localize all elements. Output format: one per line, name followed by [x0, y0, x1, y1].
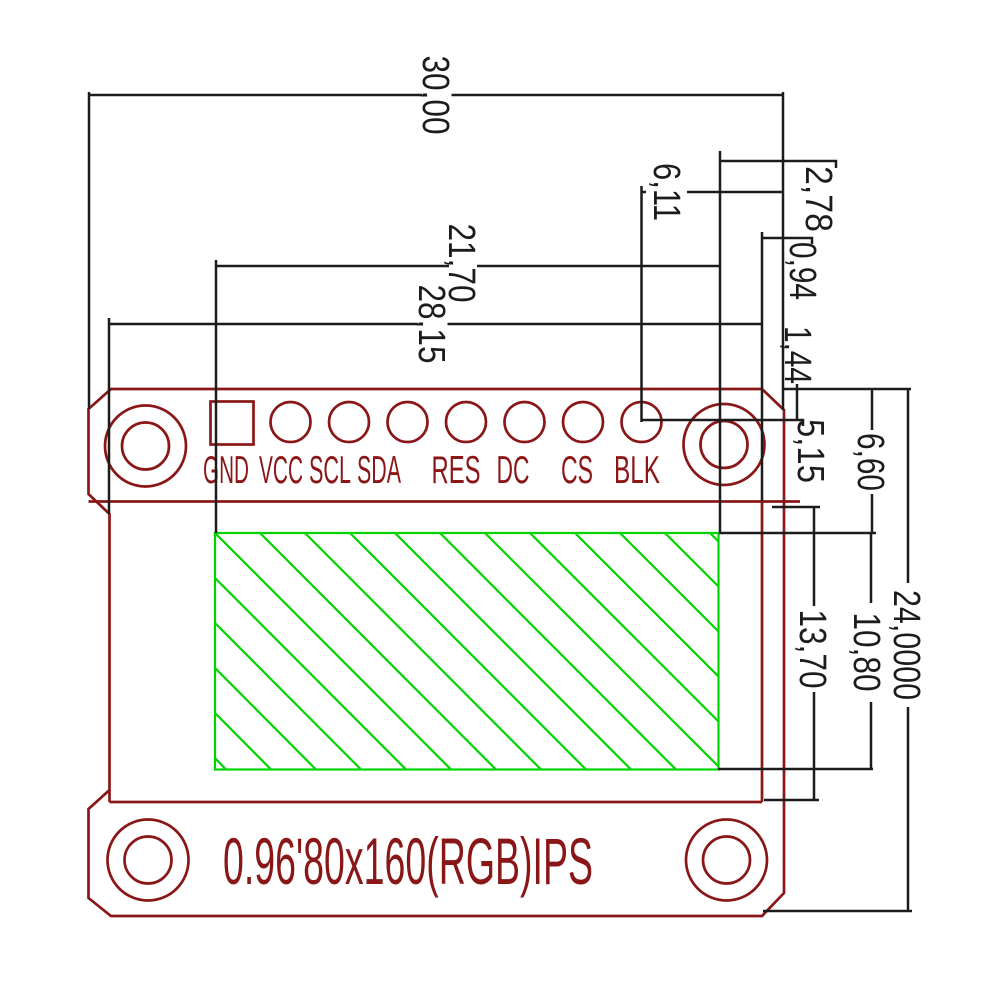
- dimension lines black: [89, 92, 912, 911]
- board top extension right: [784, 388, 911, 391]
- svg-text:13,70: 13,70: [791, 610, 833, 689]
- svg-text:VCC: VCC: [259, 449, 303, 492]
- glass right edge: [761, 502, 764, 803]
- svg-text:5,15: 5,15: [789, 419, 831, 483]
- svg-text:24,0000: 24,0000: [885, 590, 927, 700]
- dim 5.15 line: [642, 420, 803, 426]
- pad SDA: [388, 402, 428, 442]
- pad RES: [446, 402, 486, 442]
- dim 10.80 line: [870, 533, 873, 769]
- dim 28.15 left extension: [108, 318, 111, 514]
- hatch lines: [215, 533, 719, 770]
- dim 13.70 top tick: [772, 506, 820, 509]
- pad GND square: [211, 402, 254, 445]
- pin labels: [203, 449, 660, 492]
- dimension texts: [410, 56, 927, 701]
- dim 13.70 line: [813, 506, 816, 800]
- pad DC: [505, 402, 545, 442]
- svg-text:0,94: 0,94: [781, 242, 823, 300]
- svg-text:1,44: 1,44: [776, 326, 818, 384]
- dim 21.70 line: [216, 265, 720, 268]
- mounting hole bottom-right: [686, 820, 767, 901]
- svg-text:30,00: 30,00: [414, 56, 456, 135]
- mounting hole top-left: [105, 406, 186, 487]
- display active area hatch: [215, 533, 719, 770]
- top strip bottom edge: [89, 500, 801, 503]
- svg-text:6,60: 6,60: [849, 433, 891, 491]
- svg-text:DC: DC: [497, 449, 530, 492]
- pad BLK: [622, 402, 662, 442]
- dim 6.60 line: [871, 389, 874, 533]
- dim 6.11 line: [641, 191, 783, 194]
- dim 30.00 right extension: [782, 92, 785, 410]
- pad VCC: [271, 402, 311, 442]
- extension glass right: [761, 232, 764, 501]
- dim 30.00 left extension: [88, 92, 91, 409]
- svg-text:0.96'80x160(RGB)IPS: 0.96'80x160(RGB)IPS: [223, 824, 593, 898]
- display active area outline: [215, 533, 719, 770]
- svg-text:BLK: BLK: [614, 449, 660, 492]
- svg-text:CS: CS: [561, 449, 593, 492]
- svg-text:6,11: 6,11: [645, 163, 687, 221]
- dim 21.70 left extension: [215, 260, 218, 533]
- dim 1.44 line: [796, 384, 799, 420]
- dim 28.15 line: [109, 323, 762, 326]
- svg-text:SDA: SDA: [357, 449, 401, 492]
- mounting hole top-right: [684, 404, 765, 485]
- dim 2.78 line: [720, 161, 836, 168]
- svg-text:RES: RES: [432, 449, 481, 492]
- PCB board outline: [89, 389, 785, 916]
- svg-text:GND: GND: [203, 449, 249, 492]
- dim 13.70 bottom tick: [764, 799, 819, 802]
- dim 0.94 line: [762, 238, 812, 244]
- dim 30.00 line: [89, 94, 783, 97]
- mounting hole bottom-left: [108, 820, 189, 901]
- extension hole center: [719, 151, 722, 534]
- pad SCL: [329, 402, 369, 442]
- board bottom extension: [763, 910, 912, 913]
- bottom strip top edge: [110, 801, 763, 804]
- left edge stub: [108, 790, 111, 802]
- svg-text:10,80: 10,80: [845, 613, 887, 692]
- svg-text:28,15: 28,15: [410, 285, 452, 364]
- extension BLK pad: [640, 186, 643, 422]
- dim 24.0000 line: [907, 389, 910, 911]
- svg-text:SCL: SCL: [309, 449, 351, 492]
- svg-text:2,78: 2,78: [797, 166, 839, 232]
- pad CS: [563, 402, 603, 442]
- hatch bottom extension: [718, 768, 873, 771]
- hatch top extension: [719, 532, 876, 535]
